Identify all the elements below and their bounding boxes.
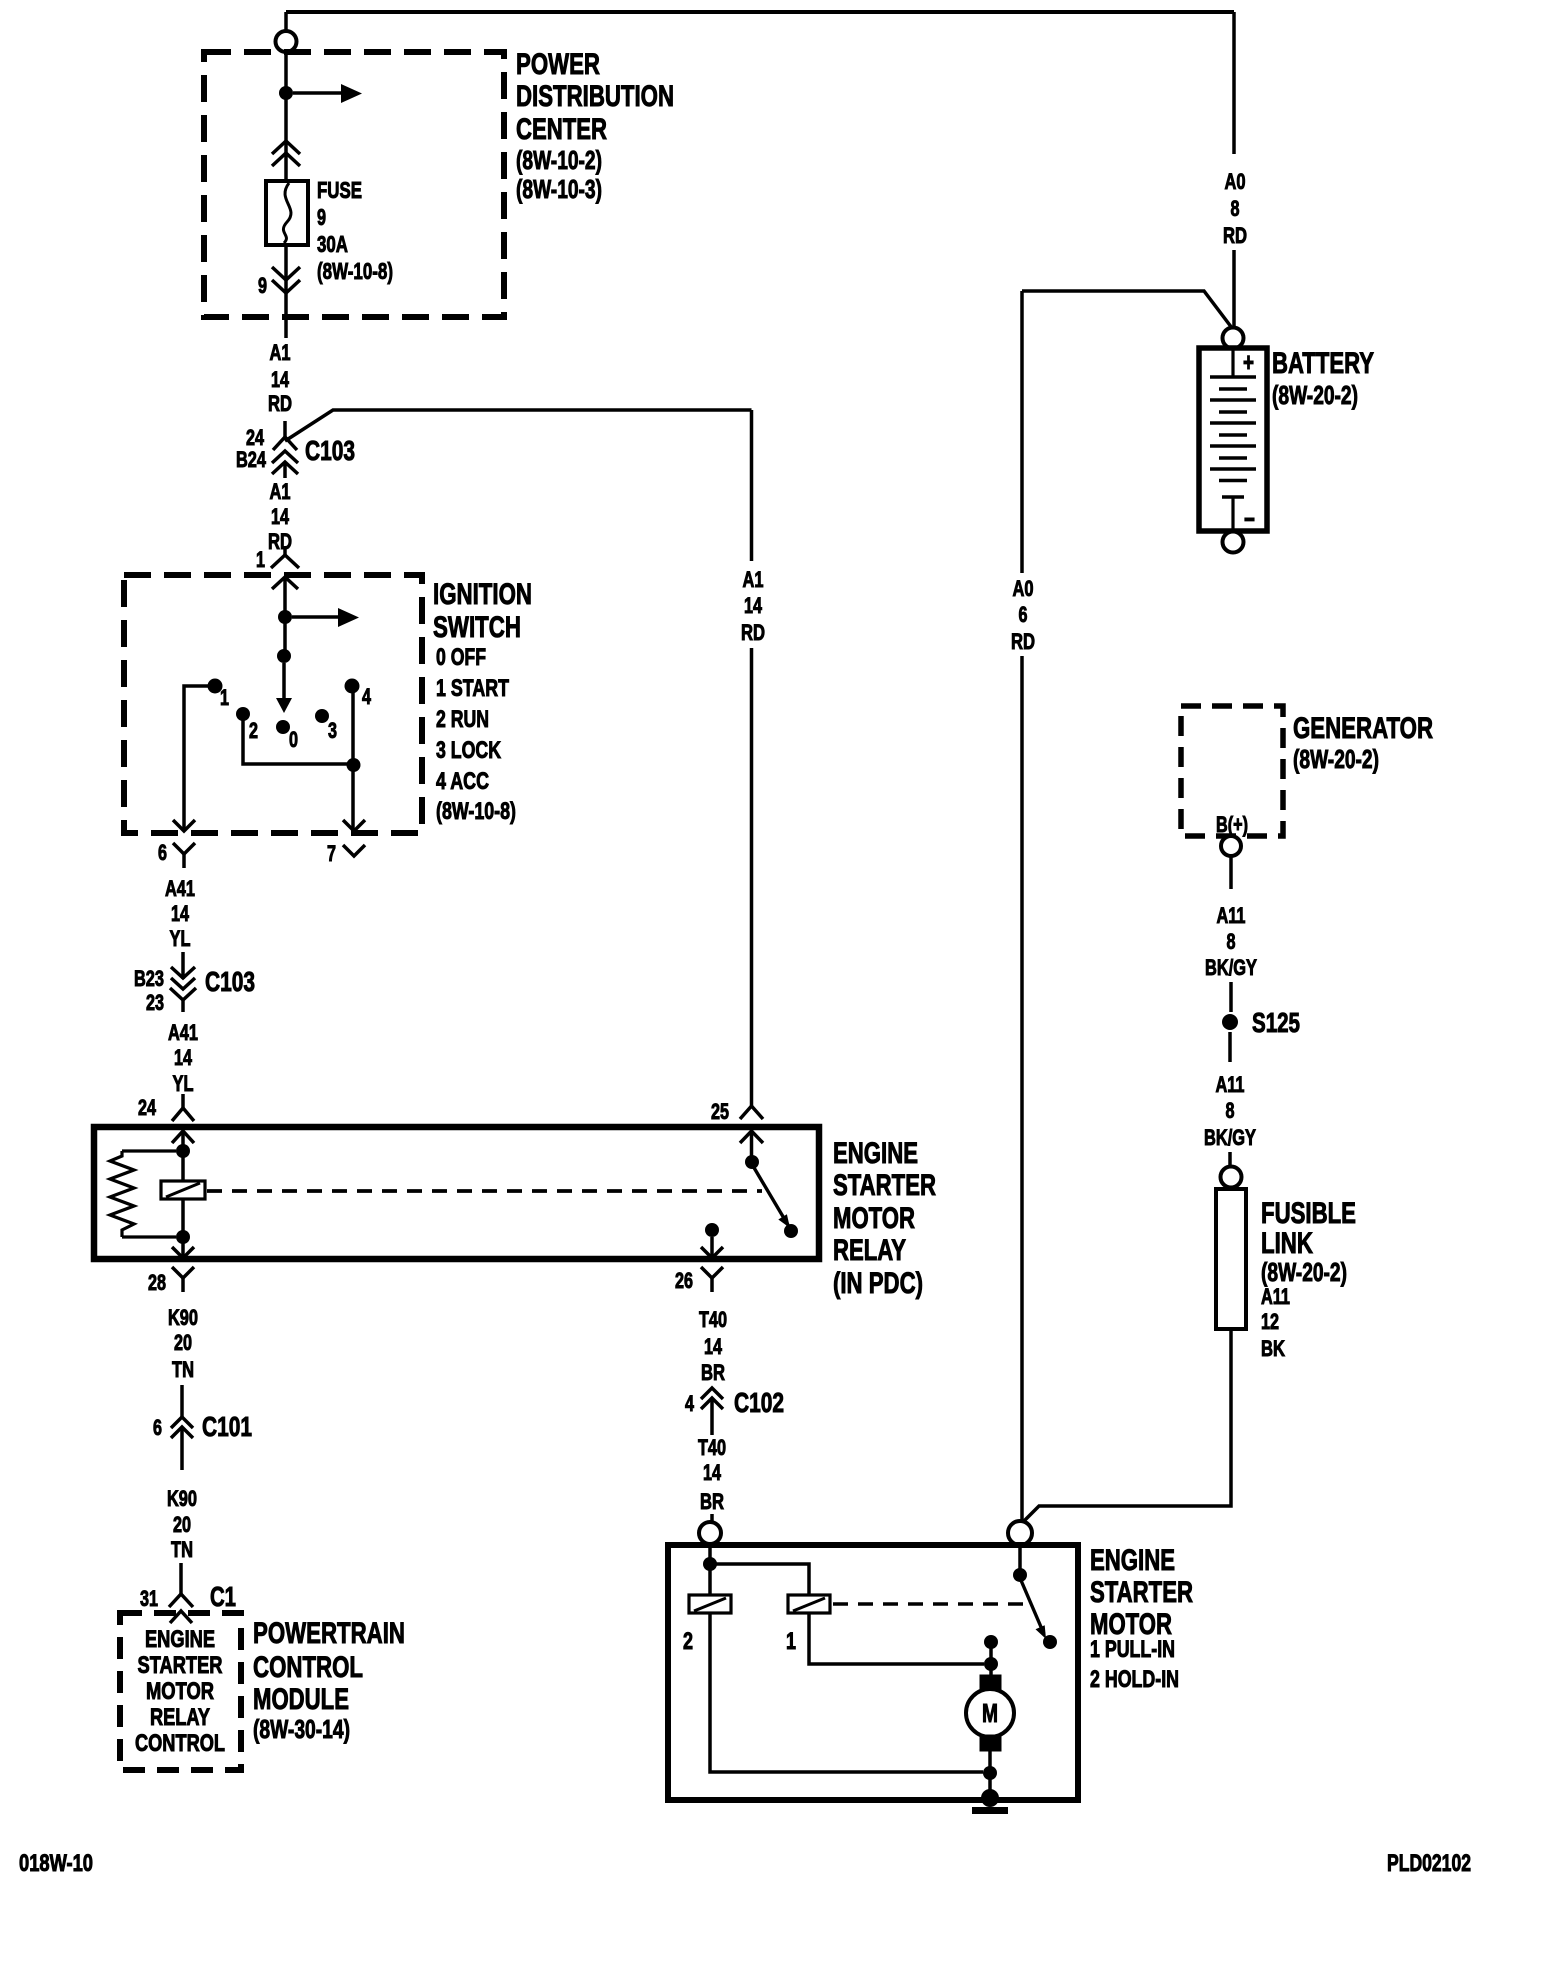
svg-text:14: 14 (171, 901, 190, 926)
svg-text:26: 26 (675, 1268, 693, 1293)
arrow pin 6 exit (173, 820, 195, 831)
connector C103 upper half (283, 421, 287, 437)
svg-text:2 RUN: 2 RUN (436, 706, 489, 733)
starter switch arm (1020, 1578, 1044, 1634)
ground starter motor (981, 1789, 999, 1807)
contact 3 (315, 709, 329, 723)
generator dashed box (1181, 706, 1283, 836)
svg-text:T40: T40 (699, 1307, 727, 1332)
dashed mechanical link relay (207, 1189, 762, 1193)
svg-text:1 PULL-IN: 1 PULL-IN (1090, 1636, 1175, 1663)
wire battery feed top horizontal (286, 10, 1234, 14)
wire hold-in coil to ground node (710, 1613, 983, 1772)
connector C102 (701, 1388, 723, 1399)
svg-text:A1: A1 (743, 567, 764, 592)
wire A1 RD vertical upper (750, 410, 754, 561)
wire A0 6 RD upper (1020, 291, 1024, 573)
connector relay pin 28 (172, 1267, 194, 1278)
svg-text:(8W-20-2): (8W-20-2) (1272, 380, 1358, 410)
svg-text:20: 20 (174, 1330, 192, 1355)
node starter switch pivot (1013, 1568, 1027, 1582)
svg-text:8: 8 (1227, 929, 1236, 954)
arrow pin 28 exit (181, 1237, 185, 1258)
node pin 26 (705, 1223, 719, 1237)
svg-text:6: 6 (153, 1415, 162, 1440)
wire generator to A11 (1229, 856, 1233, 889)
svg-text:BK/GY: BK/GY (1204, 1125, 1256, 1150)
svg-text:GENERATOR: GENERATOR (1293, 712, 1433, 745)
svg-text:A11: A11 (1261, 1284, 1290, 1309)
svg-text:31: 31 (140, 1586, 158, 1611)
svg-text:(8W-10-3): (8W-10-3) (516, 174, 602, 204)
splice S125 (1222, 1014, 1238, 1030)
svg-text:8: 8 (1226, 1098, 1235, 1123)
wire coil to pin28 (181, 1199, 185, 1237)
svg-text:7: 7 (327, 841, 336, 866)
arrow to accessory circuits (292, 615, 338, 619)
node motor ground junction (983, 1766, 997, 1780)
svg-text:DISTRIBUTION: DISTRIBUTION (516, 80, 674, 113)
svg-text:3 LOCK: 3 LOCK (436, 737, 501, 764)
node solenoid feed split (703, 1557, 717, 1571)
svg-text:14: 14 (704, 1334, 723, 1359)
wire A0 RD to battery (1232, 250, 1236, 327)
svg-text:A11: A11 (1217, 903, 1246, 928)
svg-text:ENGINE: ENGINE (1090, 1544, 1175, 1577)
svg-text:1: 1 (786, 1628, 796, 1655)
fusible link (1216, 1189, 1246, 1329)
svg-text:C101: C101 (202, 1411, 252, 1442)
wire A0 6 RD long (1020, 656, 1024, 1521)
svg-text:RELAY: RELAY (833, 1234, 906, 1267)
solenoid coil 1 pull-in (788, 1595, 830, 1613)
svg-text:C103: C103 (305, 435, 355, 466)
svg-text:YL: YL (170, 926, 191, 951)
wire from ring to fuse (284, 52, 288, 181)
svg-text:IGNITION: IGNITION (433, 578, 532, 611)
wire battery to starter branch (1022, 291, 1232, 328)
svg-text:MODULE: MODULE (253, 1683, 349, 1716)
node relay contact (784, 1224, 798, 1238)
resistor relay suppression (122, 1149, 176, 1152)
arrow feed to other circuits (293, 91, 341, 95)
contact 4 (345, 679, 360, 694)
wire A0 RD vertical upper (1232, 12, 1236, 154)
svg-text:1: 1 (256, 547, 265, 572)
svg-text:(8W-10-8): (8W-10-8) (436, 798, 516, 825)
node coil top (176, 1144, 190, 1158)
ring terminal battery negative (1223, 532, 1244, 553)
ring terminal starter battery post (1008, 1521, 1032, 1545)
battery box (1199, 348, 1267, 531)
svg-text:ENGINE: ENGINE (145, 1626, 215, 1653)
relay box (94, 1127, 819, 1259)
node wiper feed (278, 610, 292, 624)
svg-text:9: 9 (258, 273, 267, 298)
svg-text:RD: RD (1011, 629, 1035, 654)
wire motor to ground (988, 1751, 992, 1798)
svg-text:CONTROL: CONTROL (135, 1730, 225, 1757)
svg-text:POWER: POWER (516, 48, 600, 81)
node wiper pivot (277, 649, 291, 663)
wire TN to C1 (179, 1563, 183, 1594)
contact 0 (276, 720, 290, 734)
svg-text:T40: T40 (698, 1435, 726, 1460)
connector C103 second (171, 967, 195, 978)
wire pull-in coil to motor (809, 1613, 984, 1664)
relay coil K1 (161, 1181, 205, 1199)
wire motor feed (989, 1642, 993, 1664)
svg-text:(8W-10-8): (8W-10-8) (317, 258, 393, 284)
svg-text:A0: A0 (1013, 576, 1034, 601)
fuse 9 30A (266, 181, 308, 245)
connector pin 6 female (173, 843, 195, 854)
node junction 2-4 (347, 758, 361, 772)
svg-text:14: 14 (271, 504, 290, 529)
svg-text:A41: A41 (165, 876, 195, 901)
svg-text:+: + (1243, 347, 1254, 377)
dashed mechanical link solenoid (833, 1602, 1026, 1606)
ignition switch dashed box (124, 575, 422, 833)
svg-text:RD: RD (1223, 223, 1247, 248)
wire to C103 lower (181, 952, 185, 979)
svg-text:14: 14 (271, 367, 290, 392)
svg-text:CONTROL: CONTROL (253, 1651, 363, 1684)
svg-text:(8W-10-2): (8W-10-2) (516, 145, 602, 175)
svg-text:3: 3 (328, 718, 337, 743)
svg-text:RD: RD (268, 529, 292, 554)
svg-text:BR: BR (700, 1489, 724, 1514)
node motor feed lower (984, 1657, 998, 1671)
ring terminal fusible link (1221, 1167, 1242, 1188)
svg-text:14: 14 (703, 1460, 722, 1485)
svg-text:YL: YL (173, 1071, 194, 1096)
contact 2 (236, 707, 250, 721)
svg-text:BK/GY: BK/GY (1205, 955, 1257, 980)
svg-text:RD: RD (268, 391, 292, 416)
wire A11 to fusible link (1228, 1152, 1232, 1167)
connector C103 lower half (272, 451, 298, 463)
svg-text:MOTOR: MOTOR (146, 1678, 214, 1705)
svg-text:4: 4 (685, 1391, 695, 1416)
node relay switch pivot (745, 1155, 759, 1169)
svg-text:(8W-20-2): (8W-20-2) (1261, 1257, 1347, 1287)
wire contact2 to junction (243, 714, 353, 764)
svg-text:1: 1 (220, 685, 229, 710)
svg-text:14: 14 (174, 1045, 193, 1070)
connector relay pin 26 (701, 1267, 723, 1278)
svg-text:M: M (982, 1698, 998, 1728)
svg-text:0 OFF: 0 OFF (436, 644, 486, 671)
svg-text:S125: S125 (1252, 1007, 1300, 1038)
wire to motor terminal (989, 1664, 993, 1678)
wire fusible link to starter (1022, 1329, 1231, 1523)
svg-text:C103: C103 (205, 966, 255, 997)
svg-text:MOTOR: MOTOR (833, 1202, 915, 1235)
pin 1 male chevron inside (272, 577, 298, 589)
svg-text:24: 24 (138, 1095, 157, 1120)
wire A11 to S125 (1229, 982, 1233, 1012)
pin 25 male chevron (740, 1131, 763, 1143)
wire battery post to switch (1018, 1544, 1022, 1575)
svg-text:TN: TN (172, 1357, 194, 1382)
svg-text:FUSIBLE: FUSIBLE (1261, 1197, 1356, 1230)
connector C101 (171, 1417, 193, 1428)
svg-text:RELAY: RELAY (150, 1704, 210, 1731)
svg-text:6: 6 (1019, 602, 1028, 627)
svg-text:A1: A1 (270, 479, 291, 504)
svg-text:8: 8 (1231, 196, 1240, 221)
svg-text:2: 2 (249, 718, 258, 743)
node starter switch contact (1043, 1635, 1057, 1649)
svg-text:−: − (1244, 504, 1255, 534)
wire pin1 to wiper (283, 577, 287, 656)
svg-text:BATTERY: BATTERY (1272, 347, 1374, 380)
svg-text:STARTER: STARTER (833, 1169, 936, 1202)
PCM dashed box (120, 1613, 241, 1770)
relay switch arm (753, 1166, 788, 1225)
svg-text:K90: K90 (168, 1305, 198, 1330)
svg-text:B24: B24 (236, 447, 267, 472)
connector pin 1 ignition switch (283, 548, 287, 556)
wire pin24 to coil (181, 1131, 185, 1181)
svg-text:K90: K90 (167, 1486, 197, 1511)
svg-text:20: 20 (173, 1512, 191, 1537)
svg-text:RD: RD (741, 620, 765, 645)
wire TN to C101 (180, 1385, 184, 1417)
wire fuse to C103 (284, 245, 288, 338)
svg-text:A41: A41 (168, 1020, 198, 1045)
svg-text:B23: B23 (134, 966, 164, 991)
ring terminal battery positive (1223, 328, 1244, 349)
svg-text:ENGINE: ENGINE (833, 1137, 918, 1170)
svg-text:A11: A11 (1216, 1072, 1245, 1097)
svg-text:2: 2 (683, 1628, 693, 1655)
connector pin 7 female (343, 845, 365, 856)
svg-text:C102: C102 (734, 1387, 784, 1418)
svg-text:4 ACC: 4 ACC (436, 768, 489, 795)
svg-text:BK: BK (1261, 1336, 1285, 1361)
svg-text:30A: 30A (317, 231, 348, 257)
svg-text:25: 25 (711, 1099, 729, 1124)
svg-text:C1: C1 (210, 1581, 236, 1612)
svg-text:23: 23 (146, 990, 164, 1015)
svg-text:FUSE: FUSE (317, 177, 362, 203)
svg-text:STARTER: STARTER (1090, 1576, 1193, 1609)
svg-text:PLD02102: PLD02102 (1387, 1850, 1471, 1877)
svg-text:9: 9 (317, 204, 326, 230)
battery cells (1231, 349, 1234, 377)
svg-text:0: 0 (289, 727, 298, 752)
svg-text:CENTER: CENTER (516, 113, 607, 146)
svg-text:A1: A1 (270, 340, 291, 365)
motor M (980, 1675, 1001, 1691)
svg-text:(8W-20-2): (8W-20-2) (1293, 744, 1379, 774)
svg-text:SWITCH: SWITCH (433, 611, 521, 644)
arrow pin 7 exit (343, 820, 365, 831)
pin 24 male chevron (172, 1131, 194, 1143)
svg-text:BR: BR (701, 1360, 725, 1385)
PDC dashed box (204, 52, 504, 317)
wire to pull-in coil (710, 1564, 809, 1595)
svg-text:1 START: 1 START (436, 675, 509, 702)
switch wiper arm (282, 663, 286, 700)
node motor feed upper (984, 1635, 998, 1649)
svg-text:14: 14 (744, 593, 763, 618)
wire A1 RD vertical lower (750, 648, 754, 1092)
svg-text:STARTER: STARTER (138, 1652, 223, 1679)
ring terminal generator B+ (1221, 836, 1241, 856)
svg-text:018W-10: 018W-10 (19, 1850, 93, 1877)
svg-text:(IN PDC): (IN PDC) (833, 1267, 923, 1300)
svg-text:6: 6 (158, 840, 167, 865)
svg-text:A0: A0 (1225, 169, 1246, 194)
svg-text:B(+): B(+) (1216, 812, 1248, 837)
svg-text:28: 28 (148, 1270, 166, 1295)
connector C1 (169, 1594, 193, 1607)
connector chevrons above fuse (272, 141, 300, 154)
starter motor box (668, 1545, 1078, 1800)
wire branch to starter relay (285, 410, 752, 441)
wire stub to PDC ring (284, 12, 288, 32)
svg-text:2 HOLD-IN: 2 HOLD-IN (1090, 1666, 1179, 1693)
node junction above fuse (279, 86, 293, 100)
svg-text:12: 12 (1261, 1309, 1279, 1334)
svg-text:TN: TN (171, 1537, 193, 1562)
wire solenoid feed (708, 1544, 712, 1595)
svg-text:POWERTRAIN: POWERTRAIN (253, 1617, 405, 1650)
solenoid coil 2 hold-in (689, 1595, 731, 1613)
wire pin25 to switch (750, 1131, 754, 1162)
node coil bottom (176, 1230, 190, 1244)
wire S125 down (1228, 1032, 1232, 1062)
wire contact4 to pin7 (351, 686, 355, 831)
connector relay pin 25 (750, 1092, 754, 1106)
svg-text:4: 4 (362, 684, 372, 709)
connector chevrons below fuse (272, 267, 300, 280)
connector relay pin 24 (181, 1094, 185, 1108)
wire contact1 to pin6 (184, 686, 215, 831)
arrow pin 26 exit (710, 1237, 714, 1258)
svg-text:LINK: LINK (1261, 1227, 1313, 1260)
ring terminal starter solenoid (699, 1522, 721, 1544)
wire BR to starter ring (710, 1514, 714, 1522)
svg-text:(8W-30-14): (8W-30-14) (253, 1714, 350, 1744)
contact 1 (208, 679, 223, 694)
ring terminal PDC feed (276, 31, 297, 52)
